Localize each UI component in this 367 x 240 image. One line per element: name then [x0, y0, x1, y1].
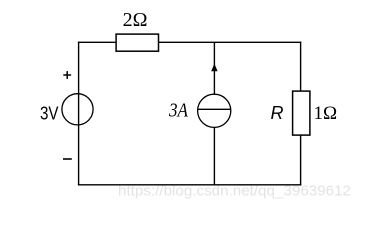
svg-text:1Ω: 1Ω — [314, 103, 338, 124]
wire middle branch lower — [213, 127, 215, 185]
wire right branch lower — [300, 135, 302, 186]
svg-text:3A: 3A — [168, 100, 189, 122]
minus sign — [63, 158, 72, 160]
wire top rail left segment — [78, 41, 116, 43]
plus sign — [63, 71, 71, 79]
wire right branch upper — [300, 42, 302, 92]
wire left branch — [78, 42, 80, 186]
voltage source U1 circle — [62, 94, 93, 125]
current source chord — [198, 108, 231, 110]
svg-text:R: R — [271, 103, 284, 123]
wire top rail right segment — [159, 41, 302, 43]
current arrow — [211, 64, 217, 72]
resistor R box — [293, 91, 310, 135]
svg-text:3V: 3V — [40, 104, 59, 124]
wire middle branch upper — [213, 42, 215, 95]
svg-text:2Ω: 2Ω — [123, 9, 148, 31]
wire bottom rail — [78, 184, 301, 186]
resistor 2Ω box — [116, 34, 158, 51]
current source I1 circle — [198, 94, 231, 127]
